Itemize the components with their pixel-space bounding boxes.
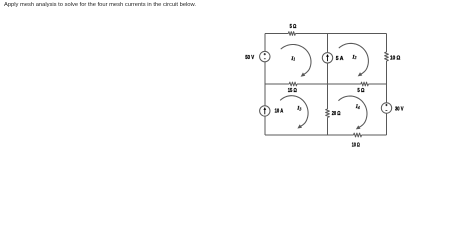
- wire middle vertical between 5A source and 20ohm: [327, 63, 329, 109]
- svg-text:15 Ω: 15 Ω: [288, 88, 297, 94]
- minus mark of 50V source: [264, 58, 266, 60]
- voltage source V=30V circle: [381, 103, 391, 113]
- problem statement title: [4, 3, 196, 9]
- svg-text:I4: I4: [355, 104, 360, 110]
- wire middle rail right of 5ohm: [368, 83, 386, 85]
- svg-text:10 Ω: 10 Ω: [352, 143, 360, 148]
- svg-text:5 A: 5 A: [336, 56, 344, 62]
- mesh current arrow I4 arc: [338, 96, 367, 127]
- circuit schematic: [0, 0, 474, 148]
- svg-text:5 Ω: 5 Ω: [357, 88, 364, 94]
- wire right edge between 10ohm and 30V source: [386, 61, 388, 103]
- current source I=5A circle: [322, 53, 332, 63]
- wire middle vertical above 5A source: [327, 34, 329, 53]
- svg-text:10 A: 10 A: [275, 108, 284, 114]
- resistor R=5ohm middle rail: [361, 82, 369, 86]
- wire middle vertical below 20ohm: [327, 117, 329, 135]
- arrow inside 10A current source: [264, 109, 266, 114]
- resistor R=20ohm middle vertical: [326, 109, 330, 117]
- wire top-right segment: [295, 33, 386, 35]
- plus mark of 50V source: [264, 53, 266, 55]
- svg-text:30 V: 30 V: [395, 106, 404, 112]
- minus mark of 30V source: [386, 109, 388, 111]
- voltage source V=50V circle: [260, 51, 270, 61]
- wire left edge between 50V source and mid rail: [264, 62, 266, 106]
- mesh current arrow I3 arc: [280, 96, 308, 127]
- arrowhead of I2: [358, 72, 363, 76]
- mesh current arrow I1 arc: [281, 45, 311, 75]
- svg-text:20 Ω: 20 Ω: [332, 111, 341, 117]
- svg-text:50 V: 50 V: [245, 55, 254, 61]
- svg-text:5 Ω: 5 Ω: [290, 24, 297, 30]
- resistor R=10ohm bottom: [354, 133, 362, 137]
- wire bottom right of 10ohm: [362, 134, 387, 136]
- wire middle rail left of 15ohm: [265, 83, 289, 85]
- resistor R=10ohm right edge: [385, 52, 389, 61]
- wire right edge above 10ohm: [386, 34, 388, 53]
- svg-text:10 Ω: 10 Ω: [390, 56, 401, 62]
- plus mark of 30V source: [385, 104, 387, 106]
- wire left edge above 50V source: [264, 34, 266, 52]
- arrowhead of I4: [356, 125, 361, 129]
- svg-text:I1: I1: [290, 56, 295, 62]
- svg-text:I2: I2: [351, 54, 356, 60]
- resistor R=15ohm middle rail: [289, 82, 297, 86]
- wire bottom left of 10ohm: [265, 134, 354, 136]
- wire left edge below 10A source: [264, 116, 266, 135]
- wire right edge below 30V source: [386, 113, 388, 135]
- mesh current arrow I2 arc: [339, 43, 369, 74]
- wire top-left segment: [265, 33, 288, 35]
- current source I=10A circle: [260, 106, 270, 116]
- arrowhead of I3: [297, 124, 302, 128]
- arrow inside 5A current source: [327, 56, 329, 61]
- svg-text:I3: I3: [296, 106, 301, 112]
- resistor R=5ohm top: [288, 32, 295, 36]
- wire middle rail between 15ohm and 5ohm: [297, 83, 361, 85]
- arrowhead of I1: [301, 73, 306, 77]
